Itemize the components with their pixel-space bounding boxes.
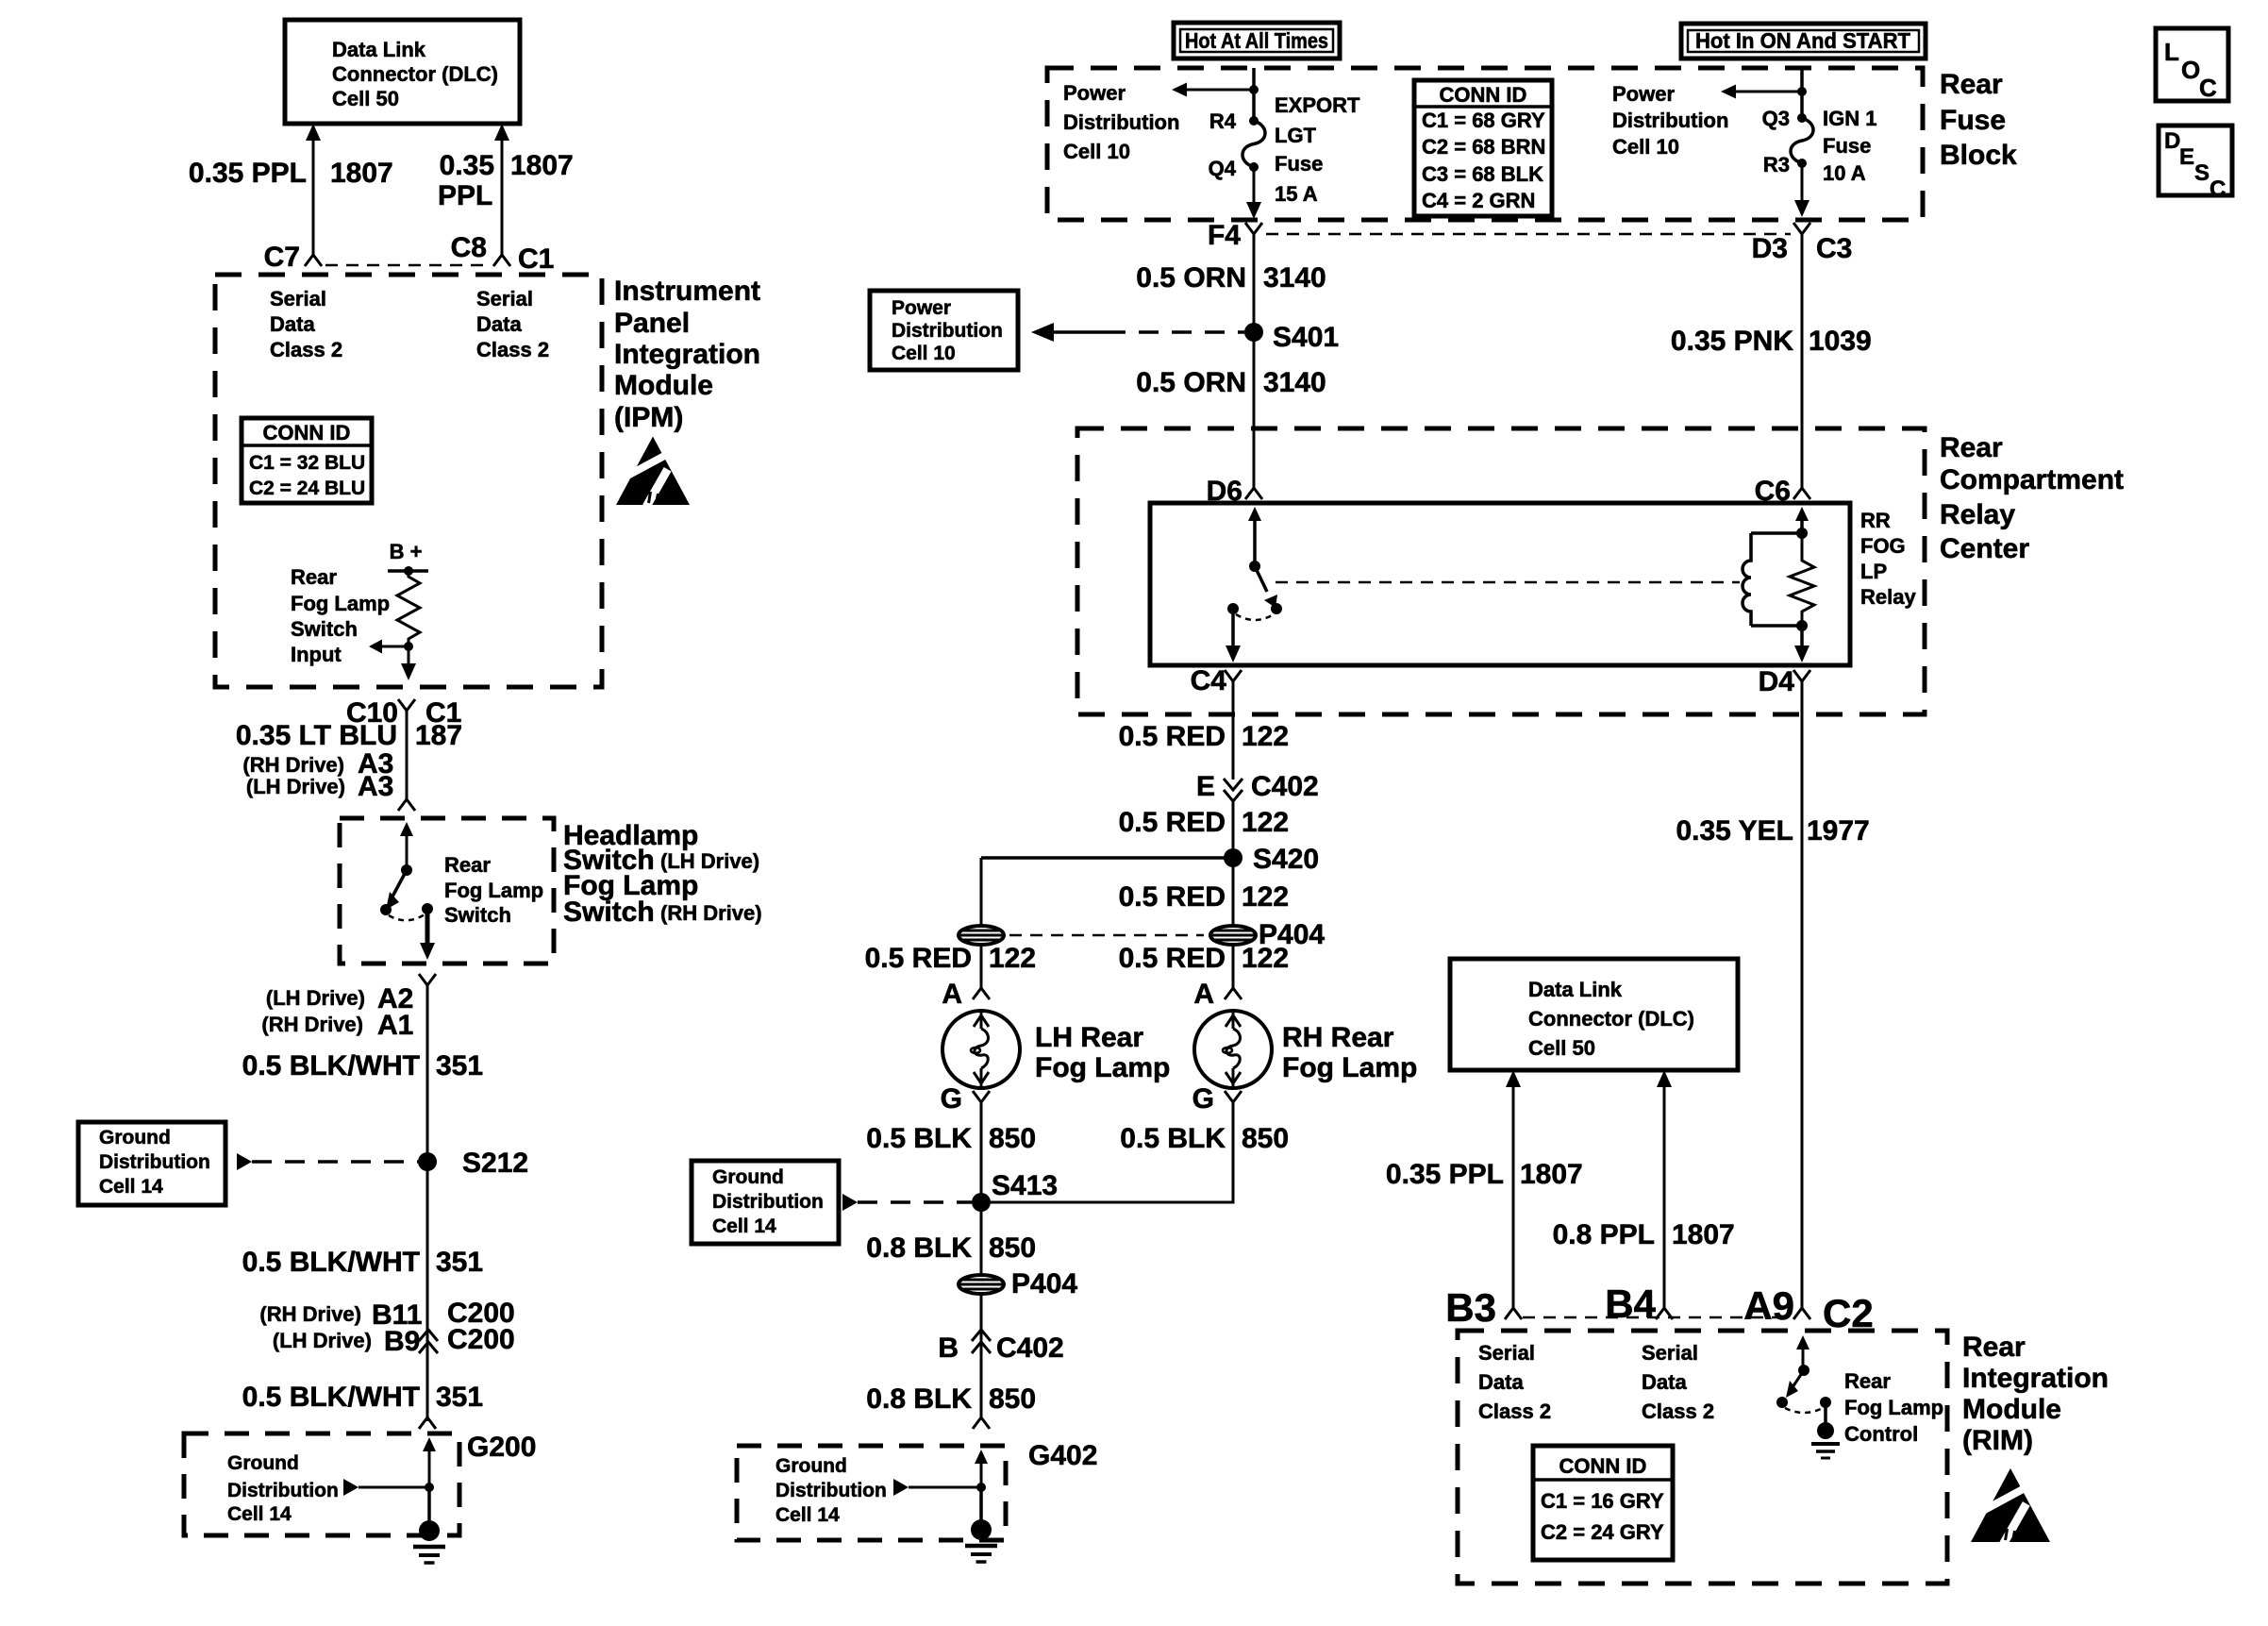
svg-text:Cell 10: Cell 10	[892, 343, 956, 364]
svg-text:0.35 YEL: 0.35 YEL	[1676, 815, 1793, 847]
svg-text:G200: G200	[467, 1432, 536, 1463]
svg-text:0.35 PPL: 0.35 PPL	[189, 158, 307, 189]
svg-text:0.5 RED: 0.5 RED	[1119, 943, 1226, 974]
svg-text:C2 = 24 GRY: C2 = 24 GRY	[1541, 1520, 1664, 1544]
reference box: Ground Distribution Cell 14 (S413)	[692, 1161, 839, 1244]
svg-text:0.5 ORN: 0.5 ORN	[1136, 262, 1246, 293]
module dashed box: Rear Fuse Block	[1047, 68, 1923, 220]
svg-text:0.5 ORN: 0.5 ORN	[1136, 367, 1246, 398]
wire: serial data class 2 from IPM C7 to DLC, arrow up	[306, 124, 321, 141]
svg-text:Switch: Switch	[444, 903, 511, 927]
svg-text:15 A: 15 A	[1275, 182, 1318, 206]
svg-text:Serial: Serial	[476, 287, 533, 310]
connector A fork (RH)	[1225, 975, 1242, 999]
svg-text:1977: 1977	[1807, 815, 1870, 847]
svg-text:Switch: Switch	[291, 617, 358, 641]
svg-text:A3: A3	[358, 771, 393, 802]
connector F4 fork	[1245, 223, 1262, 247]
svg-text:G402: G402	[1028, 1440, 1097, 1471]
wire 0.5 BLK 850 RH lamp down and across to S413	[991, 1102, 1233, 1202]
svg-text:Distribution: Distribution	[227, 1480, 339, 1501]
svg-text:850: 850	[1242, 1123, 1289, 1154]
svg-text:C402: C402	[996, 1333, 1064, 1364]
relay switch contact dots	[1271, 603, 1282, 614]
fuse element IGN 1	[1791, 118, 1813, 163]
svg-text:C1 = 68 GRY: C1 = 68 GRY	[1422, 109, 1545, 132]
svg-text:1807: 1807	[330, 158, 393, 189]
svg-text:122: 122	[1242, 721, 1289, 752]
svg-text:Control: Control	[1844, 1422, 1918, 1446]
svg-text:Ground: Ground	[712, 1166, 784, 1188]
dashed reference arrow to S212	[237, 1153, 252, 1170]
arrow up inside G200	[423, 1437, 436, 1451]
svg-text:A1: A1	[377, 1010, 413, 1041]
CONN ID table (fuse block): C1..C4	[1414, 80, 1552, 216]
svg-text:Rear: Rear	[1962, 1332, 2026, 1363]
wire 0.8 BLK 850 from C402 to G402	[980, 1353, 983, 1417]
pass-through grommet P404 (RH)	[1210, 926, 1256, 945]
svg-text:Cell 10: Cell 10	[1063, 140, 1130, 163]
svg-text:0.5 BLK: 0.5 BLK	[866, 1123, 972, 1154]
connector D4 fork	[1793, 670, 1810, 695]
switch blade with arrowhead	[392, 870, 407, 897]
switch output thick arrow down	[425, 909, 430, 944]
connector D6 fork	[1245, 475, 1262, 499]
svg-text:Distribution: Distribution	[1063, 110, 1179, 134]
wire from P404 to B C402	[980, 1294, 983, 1353]
svg-text:Serial: Serial	[1642, 1341, 1698, 1365]
svg-text:0.5 RED: 0.5 RED	[865, 943, 972, 974]
svg-text:Fuse: Fuse	[1275, 152, 1323, 176]
svg-text:C7: C7	[264, 242, 300, 273]
relay switch input arrow (from D6)	[1248, 507, 1261, 521]
svg-text:122: 122	[1242, 943, 1289, 974]
svg-text:C1 = 16 GRY: C1 = 16 GRY	[1541, 1489, 1664, 1513]
svg-text:(IPM): (IPM)	[614, 402, 683, 433]
module box: Data Link Connector (DLC) Cell 50 (left)	[285, 20, 520, 124]
svg-text:3140: 3140	[1263, 367, 1326, 398]
connector A9/C2 fork	[1793, 1295, 1810, 1319]
relay coil junction dots	[1796, 528, 1808, 539]
DESC reference box	[2159, 126, 2232, 195]
wire 0.5 BLK 850 LH lamp to S413	[980, 1102, 983, 1202]
wire from fuse down with arrow	[1253, 167, 1256, 202]
svg-text:S: S	[2194, 160, 2210, 186]
svg-text:Instrument: Instrument	[614, 276, 760, 307]
lamp RH Rear Fog Lamp	[1194, 1011, 1272, 1088]
svg-text:0.5 BLK/WHT: 0.5 BLK/WHT	[242, 1050, 420, 1081]
wire: serial data class 2 from IPM C8/C1 to DLC, arrow up	[494, 124, 509, 141]
connector B3 fork	[1505, 1295, 1522, 1319]
junction dot G402	[976, 1483, 986, 1492]
resistor: rear fog lamp switch input pull-up	[397, 571, 420, 646]
relay output arrow down (to D4)	[1800, 626, 1804, 645]
svg-text:C3: C3	[1816, 233, 1852, 264]
svg-text:Connector (DLC): Connector (DLC)	[332, 62, 498, 86]
RIM switch throw dashed arc	[1785, 1408, 1823, 1413]
svg-text:Ground: Ground	[99, 1127, 171, 1148]
svg-text:Cell 50: Cell 50	[332, 87, 399, 110]
svg-text:E: E	[1196, 771, 1215, 802]
svg-text:Serial: Serial	[1478, 1341, 1535, 1365]
svg-text:850: 850	[989, 1383, 1036, 1415]
svg-text:Block: Block	[1940, 140, 2017, 171]
svg-text:R3: R3	[1763, 153, 1790, 176]
svg-text:C: C	[2199, 74, 2217, 102]
node: switch input junction	[404, 642, 413, 651]
svg-text:A9: A9	[1743, 1283, 1794, 1328]
svg-text:IGN 1: IGN 1	[1823, 107, 1876, 130]
splice S212	[418, 1152, 437, 1171]
svg-text:D3: D3	[1752, 233, 1788, 264]
wire 0.5 RED 122 from C402 to S420	[1232, 801, 1235, 858]
relay switch blade with arrowhead	[1255, 566, 1267, 592]
svg-text:Data: Data	[1478, 1370, 1524, 1394]
junction dot feed (right fuse)	[1797, 87, 1807, 96]
svg-text:Cell 14: Cell 14	[227, 1503, 292, 1525]
RIM switch ground symbol	[1817, 1422, 1834, 1439]
svg-text:Panel: Panel	[614, 308, 690, 339]
svg-text:850: 850	[989, 1232, 1036, 1264]
svg-text:Module: Module	[1962, 1394, 2061, 1425]
arrow right to G200 ground wire	[343, 1479, 359, 1496]
wire from C10 to A3	[406, 724, 409, 796]
connector C7 fork	[305, 242, 322, 266]
svg-text:Distribution: Distribution	[712, 1191, 824, 1213]
svg-text:0.5 RED: 0.5 RED	[1119, 807, 1226, 838]
banner box: Hot At All Times	[1174, 23, 1340, 59]
svg-text:O: O	[2181, 56, 2200, 84]
svg-text:(LH Drive): (LH Drive)	[246, 775, 345, 798]
svg-text:Rear: Rear	[444, 853, 491, 877]
relay switch output arrow down (to C4)	[1231, 609, 1235, 645]
svg-text:187: 187	[415, 720, 462, 751]
svg-text:P404: P404	[1011, 1268, 1077, 1299]
switch pivot dot	[401, 864, 412, 876]
B+ supply bar and junction	[388, 569, 428, 573]
svg-text:Class 2: Class 2	[476, 338, 549, 361]
svg-text:Distribution: Distribution	[99, 1151, 210, 1173]
svg-text:E: E	[2179, 144, 2194, 170]
svg-text:0.35 PPL: 0.35 PPL	[1386, 1159, 1504, 1190]
svg-text:Input: Input	[291, 643, 342, 666]
svg-text:Cell 14: Cell 14	[712, 1215, 776, 1237]
wire branch from S420 to LH lamp (horizontal)	[981, 856, 1233, 860]
svg-text:1807: 1807	[510, 150, 574, 181]
svg-text:0.5 BLK/WHT: 0.5 BLK/WHT	[242, 1247, 420, 1278]
svg-text:(RH Drive): (RH Drive)	[660, 901, 762, 925]
svg-text:0.8 BLK: 0.8 BLK	[866, 1383, 972, 1415]
thin dashed connector line F4-D3	[1266, 233, 1791, 236]
svg-text:0.8 BLK: 0.8 BLK	[866, 1232, 972, 1264]
svg-text:Rear: Rear	[1940, 69, 2003, 100]
svg-text:Data Link: Data Link	[332, 38, 426, 61]
wire 0.5 RED 122 from C4 to E C402	[1232, 695, 1235, 779]
svg-text:Distribution: Distribution	[775, 1480, 887, 1501]
fuse element EXPORT LGT	[1242, 121, 1265, 167]
svg-text:B9: B9	[384, 1326, 420, 1357]
connector C4 fork	[1225, 670, 1242, 695]
relay control dashed link	[1276, 581, 1740, 584]
svg-text:EXPORT: EXPORT	[1275, 93, 1360, 117]
arrow to Power Distribution Cell 10 (left)	[1185, 89, 1254, 92]
RIM switch pivot dot	[1798, 1365, 1809, 1376]
svg-text:Power: Power	[1612, 82, 1675, 106]
svg-text:Data: Data	[1642, 1370, 1687, 1394]
svg-text:Data: Data	[476, 312, 522, 336]
svg-text:351: 351	[436, 1247, 483, 1278]
module dashed box: Headlamp Switch / Fog Lamp Switch	[340, 818, 554, 964]
relay RR FOG LP Relay solid box	[1150, 503, 1850, 665]
svg-text:LP: LP	[1860, 560, 1887, 583]
svg-text:Relay: Relay	[1940, 499, 2015, 530]
svg-text:Fuse: Fuse	[1823, 134, 1871, 158]
svg-text:Fog Lamp: Fog Lamp	[291, 592, 390, 615]
svg-text:RR: RR	[1860, 509, 1891, 532]
wire RH branch S420 down to P404	[1232, 858, 1235, 926]
connector G fork (LH)	[973, 1091, 990, 1115]
svg-text:Power: Power	[1063, 81, 1126, 105]
svg-text:R4: R4	[1209, 109, 1237, 133]
RIM switch blade with arrowhead	[1793, 1370, 1804, 1387]
svg-text:(LH Drive): (LH Drive)	[273, 1329, 372, 1352]
wire: IPM output down with arrow	[408, 646, 410, 663]
svg-text:B4: B4	[1605, 1282, 1656, 1326]
svg-text:0.5 RED: 0.5 RED	[1119, 881, 1226, 913]
switch contact dots	[380, 904, 392, 915]
wire serial data B4 to DLC with arrow	[1657, 1070, 1672, 1087]
splice S420	[1224, 848, 1242, 867]
svg-text:(RH Drive): (RH Drive)	[259, 1302, 361, 1326]
svg-text:122: 122	[1242, 881, 1289, 913]
switch throw dashed arc	[389, 914, 425, 920]
svg-text:Distribution: Distribution	[892, 320, 1003, 342]
svg-text:Power: Power	[892, 297, 951, 319]
svg-text:C4 = 2 GRN: C4 = 2 GRN	[1422, 189, 1535, 212]
LOC reference box	[2156, 28, 2228, 101]
RIM rear fog lamp control switch arrow	[1796, 1335, 1809, 1349]
banner box: Hot In ON And START	[1681, 24, 1926, 59]
svg-text:3140: 3140	[1263, 262, 1326, 293]
connector fork at G200	[419, 1404, 436, 1429]
svg-text:Fog Lamp: Fog Lamp	[1035, 1052, 1170, 1083]
svg-text:D4: D4	[1759, 666, 1795, 697]
svg-text:Rear: Rear	[1940, 432, 2003, 463]
svg-text:D: D	[2164, 128, 2180, 154]
connector A fork (LH)	[973, 975, 990, 999]
svg-text:0.35: 0.35	[440, 150, 494, 181]
wire 0.5 RED 122 RH to lamp A	[1232, 945, 1235, 984]
connector C200 double chevron	[419, 1330, 438, 1341]
arrow: rear fog lamp switch input (to left)	[381, 645, 409, 648]
svg-text:G: G	[1192, 1083, 1214, 1115]
wire 0.5 ORN 3140 from F4 to D6	[1253, 247, 1256, 475]
svg-text:Center: Center	[1940, 533, 2029, 564]
svg-text:C: C	[2210, 176, 2226, 202]
svg-text:10 A: 10 A	[1823, 161, 1866, 185]
connector C10/C1 fork below IPM	[398, 699, 415, 724]
svg-text:C1 = 32 BLU: C1 = 32 BLU	[249, 452, 365, 474]
svg-text:0.35 PNK: 0.35 PNK	[1671, 326, 1793, 357]
RIM switch ground stem	[1824, 1402, 1827, 1427]
connector A2 fork below switch	[419, 974, 436, 998]
splice S413	[972, 1193, 991, 1212]
svg-text:351: 351	[436, 1382, 483, 1413]
svg-text:Connector (DLC): Connector (DLC)	[1528, 1007, 1694, 1031]
svg-text:S420: S420	[1253, 844, 1319, 875]
wire from IGN1 fuse down with arrow	[1801, 163, 1804, 200]
svg-text:Distribution: Distribution	[1612, 109, 1728, 132]
relay feed arrow (from C6)	[1795, 507, 1809, 521]
svg-text:S413: S413	[992, 1170, 1058, 1201]
svg-text:0.5 RED: 0.5 RED	[1119, 721, 1226, 752]
svg-text:Hot At All Times: Hot At All Times	[1185, 28, 1328, 53]
svg-text:Integration: Integration	[1962, 1363, 2109, 1394]
svg-text:Compartment: Compartment	[1940, 464, 2124, 495]
switch: fog lamp switch input arrow	[400, 822, 413, 836]
svg-text:F4: F4	[1208, 220, 1241, 251]
ground dashed box: Ground Distribution Cell 14 (G200)	[184, 1433, 459, 1535]
svg-text:A: A	[1193, 979, 1214, 1010]
wire to ground G200	[427, 1487, 431, 1525]
wire 0.35 YEL 1977 from D4 to RIM A9	[1801, 695, 1804, 1300]
svg-text:Q3: Q3	[1762, 107, 1790, 130]
thin dashed connector line C7-C8	[325, 264, 490, 267]
svg-text:Hot In ON And START: Hot In ON And START	[1695, 28, 1910, 53]
lamp LH Rear Fog Lamp	[942, 1011, 1020, 1088]
dashed link between P404 grommets	[1009, 934, 1204, 937]
svg-text:1039: 1039	[1809, 326, 1872, 357]
svg-text:B: B	[938, 1333, 959, 1364]
svg-text:Ground: Ground	[775, 1455, 847, 1477]
connector B C402 double chevron	[972, 1330, 991, 1341]
connector C8/C1 fork	[493, 242, 510, 266]
svg-text:B +: B +	[390, 540, 423, 563]
thin dashed connector line B3-C2	[1523, 1316, 1791, 1319]
wire 0.35 PNK 1039 from C3 to C6	[1801, 247, 1804, 475]
wire 0.8 BLK 850 from S413 to P404	[980, 1202, 983, 1275]
svg-text:Fog Lamp: Fog Lamp	[1844, 1396, 1943, 1419]
relay suppression resistor	[1790, 533, 1814, 626]
junction dot G200	[425, 1483, 434, 1492]
wire from Hot At All Times into fuse block	[1252, 68, 1256, 121]
svg-text:Serial: Serial	[270, 287, 326, 310]
wire 0.5 RED 122 LH to lamp A	[980, 945, 983, 984]
relay coil	[1751, 531, 1802, 535]
svg-text:Class 2: Class 2	[1478, 1400, 1551, 1423]
reference box: Power Distribution Cell 10 (S401)	[870, 291, 1018, 370]
module box: Data Link Connector (DLC) Cell 50 (right)	[1450, 959, 1738, 1070]
pass-through grommet P404 (ground)	[959, 1275, 1004, 1294]
relay switch throw dashed arc	[1236, 614, 1274, 620]
svg-text:CONN ID: CONN ID	[1440, 83, 1527, 107]
module dashed box: Rear Compartment Relay Center	[1077, 428, 1925, 714]
svg-text:Data Link: Data Link	[1528, 978, 1623, 1001]
svg-text:0.35 LT BLU: 0.35 LT BLU	[236, 720, 397, 751]
svg-text:Cell 14: Cell 14	[775, 1504, 840, 1526]
connector D3/C3 fork	[1793, 223, 1810, 247]
relay switch pivot dot	[1249, 561, 1260, 572]
CONN ID table (RIM): C1 = 16 GRY, C2 = 24 GRY	[1533, 1446, 1673, 1560]
svg-text:122: 122	[989, 943, 1036, 974]
svg-text:(LH Drive): (LH Drive)	[266, 986, 365, 1010]
svg-text:C1: C1	[518, 243, 554, 275]
svg-text:(RH Drive): (RH Drive)	[242, 753, 344, 777]
svg-text:Cell 50: Cell 50	[1528, 1036, 1595, 1060]
svg-text:Rear: Rear	[1844, 1369, 1891, 1393]
CONN ID table (IPM): C1 = 32 BLU, C2 = 24 BLU	[242, 418, 372, 503]
svg-text:S401: S401	[1273, 322, 1339, 353]
svg-text:Cell 14: Cell 14	[99, 1176, 163, 1198]
svg-text:C8: C8	[451, 232, 487, 263]
svg-text:850: 850	[989, 1123, 1036, 1154]
ground dashed box: Ground Distribution Cell 14 (G402)	[737, 1446, 1006, 1540]
module dashed box: Rear Integration Module (RIM)	[1458, 1331, 1947, 1584]
wire to ground G402	[979, 1487, 983, 1525]
svg-text:Ground: Ground	[227, 1452, 299, 1474]
ground symbol G402	[971, 1519, 992, 1540]
svg-text:Data: Data	[270, 312, 315, 336]
svg-text:Cell 10: Cell 10	[1612, 135, 1679, 159]
svg-text:1807: 1807	[1520, 1159, 1583, 1190]
svg-text:Relay: Relay	[1860, 585, 1916, 609]
svg-text:(RIM): (RIM)	[1962, 1425, 2033, 1456]
svg-text:CONN ID: CONN ID	[263, 421, 351, 444]
ground symbol G200	[419, 1520, 440, 1541]
svg-text:G: G	[941, 1083, 962, 1115]
svg-text:Fog Lamp: Fog Lamp	[444, 879, 543, 902]
svg-text:(RH Drive): (RH Drive)	[261, 1013, 363, 1036]
connector C6 fork	[1793, 475, 1810, 499]
svg-text:0.5 BLK/WHT: 0.5 BLK/WHT	[242, 1382, 420, 1413]
fuse EXPORT LGT 15A terminals R4/Q4	[1249, 116, 1259, 126]
svg-text:FOG: FOG	[1860, 534, 1906, 558]
svg-text:Module: Module	[614, 370, 713, 401]
svg-text:Switch: Switch	[563, 897, 655, 928]
svg-text:Q4: Q4	[1209, 157, 1237, 180]
svg-text:Integration: Integration	[614, 339, 760, 370]
svg-text:Class 2: Class 2	[270, 338, 342, 361]
svg-text:LGT: LGT	[1275, 124, 1317, 147]
RIM switch contact dots	[1776, 1397, 1788, 1408]
svg-text:CONN ID: CONN ID	[1559, 1454, 1647, 1478]
connector E C402 double chevron	[1224, 779, 1242, 790]
dashed reference arrow to S413	[842, 1194, 858, 1211]
junction dot feed (left fuse)	[1249, 85, 1259, 94]
arrow to Power Distribution Cell 10 (right)	[1734, 91, 1802, 93]
wire serial data B3 to DLC with arrow	[1506, 1070, 1521, 1087]
svg-text:A: A	[942, 979, 962, 1010]
svg-text:0.8 PPL: 0.8 PPL	[1553, 1219, 1655, 1250]
svg-text:S212: S212	[462, 1148, 528, 1179]
svg-text:1807: 1807	[1672, 1219, 1735, 1250]
svg-text:C3 = 68 BLK: C3 = 68 BLK	[1422, 162, 1543, 186]
svg-text:L: L	[2164, 38, 2179, 66]
svg-text:RH Rear: RH Rear	[1282, 1022, 1394, 1053]
svg-text:C2 = 68 BRN: C2 = 68 BRN	[1422, 135, 1545, 159]
connector B4 fork	[1656, 1295, 1673, 1319]
pass-through grommet P404 (LH)	[980, 858, 983, 926]
arrow right to G402 ground wire	[893, 1479, 909, 1496]
connector A3 fork	[398, 786, 415, 811]
svg-text:Rear: Rear	[291, 565, 337, 589]
svg-text:0.5 BLK: 0.5 BLK	[1120, 1123, 1226, 1154]
reference box: Ground Distribution Cell 14 (S212)	[78, 1122, 225, 1205]
svg-text:C402: C402	[1251, 771, 1319, 802]
module dashed box: Instrument Panel Integration Module (IPM)	[215, 275, 602, 687]
connector fork at G402	[973, 1404, 990, 1429]
svg-text:Class 2: Class 2	[1642, 1400, 1714, 1423]
